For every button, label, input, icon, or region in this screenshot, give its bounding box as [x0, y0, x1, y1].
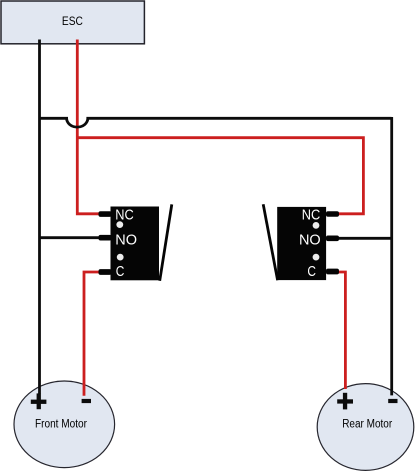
Rear Motor minus terminal — [388, 399, 397, 403]
wire: black SW1 NO to left vertical — [40, 236, 101, 239]
svg-text:NO: NO — [299, 233, 321, 249]
Front Motor plus terminal — [31, 393, 47, 409]
motor M1 body (Front) — [14, 381, 115, 468]
svg-text:C: C — [116, 264, 125, 280]
svg-text:ESC: ESC — [62, 14, 83, 28]
microswitch SW1 (left) — [99, 204, 172, 280]
wire: red ESC to SW1 NC — [77, 40, 100, 214]
microswitch SW2 (right) — [263, 204, 339, 280]
ESC box — [1, 1, 144, 44]
wire: black bus with hop over red — [40, 118, 392, 127]
svg-text:NO: NO — [115, 233, 137, 249]
wire: black right vertical to Rear Motor minus — [390, 117, 393, 395]
wire: black ESC to Front Motor plus — [38, 40, 41, 394]
Front Motor minus terminal — [82, 399, 91, 403]
Rear Motor plus terminal — [337, 393, 353, 410]
wire: red SW2 C to Rear Motor plus — [338, 272, 345, 389]
wire: black SW2 NO to right vertical — [338, 237, 393, 240]
motor M2 body (Rear) — [317, 384, 414, 471]
svg-text:C: C — [307, 264, 316, 280]
svg-text:Front Motor: Front Motor — [35, 418, 87, 430]
svg-text:NC: NC — [302, 208, 321, 224]
svg-text:NC: NC — [115, 208, 134, 224]
wire: red branch to SW2 NC — [77, 138, 363, 214]
wire: red SW1 C to Front Motor minus — [84, 272, 100, 396]
svg-text:Rear Motor: Rear Motor — [342, 418, 392, 430]
